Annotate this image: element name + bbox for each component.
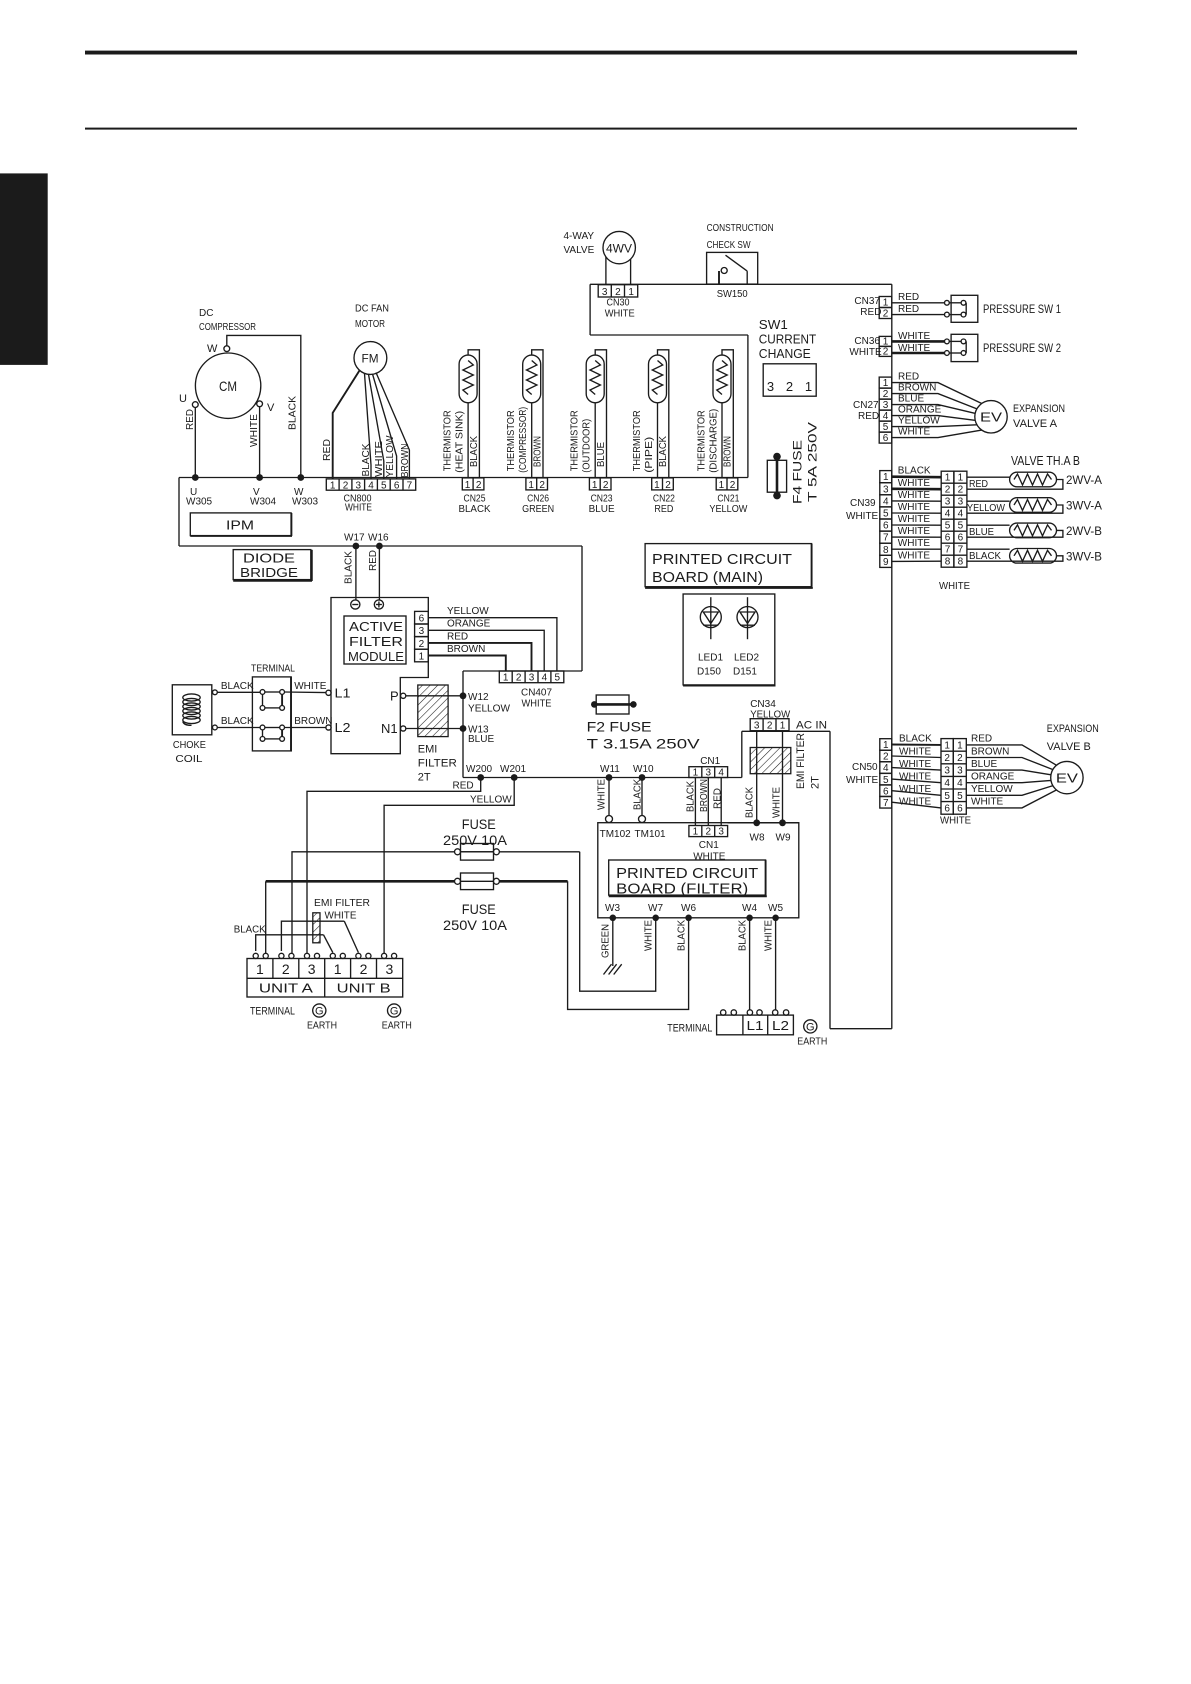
svg-text:WHITE: WHITE (898, 526, 931, 537)
svg-text:1: 1 (958, 473, 964, 484)
wire W17 black (355, 546, 357, 600)
svg-text:ORANGE: ORANGE (898, 404, 942, 415)
connector CN23 (589, 478, 611, 490)
svg-text:CN1: CN1 (699, 840, 719, 851)
compressor CM body (195, 353, 260, 418)
svg-text:YELLOW: YELLOW (447, 606, 489, 617)
junction W17 (353, 543, 360, 550)
svg-text:8: 8 (945, 557, 951, 568)
wire white to L1 (285, 691, 326, 694)
svg-text:6: 6 (883, 433, 889, 444)
svg-text:2: 2 (767, 721, 773, 732)
svg-text:MODULE: MODULE (348, 649, 404, 664)
svg-text:2: 2 (958, 485, 964, 496)
wire lower fuse left (266, 880, 455, 883)
wire white diagonal (344, 921, 358, 952)
ground (604, 964, 622, 974)
svg-text:FILTER: FILTER (349, 634, 403, 649)
wire W5 white (775, 918, 777, 1010)
choke coil box (172, 685, 212, 735)
terminal block (252, 677, 291, 751)
svg-text:W5: W5 (768, 903, 783, 914)
svg-text:1: 1 (256, 961, 264, 977)
svg-text:BLACK: BLACK (745, 787, 756, 818)
wire CN50 pin7 (892, 802, 941, 808)
svg-text:BLUE: BLUE (898, 393, 924, 404)
svg-text:W16: W16 (368, 533, 389, 544)
svg-text:1: 1 (883, 297, 889, 308)
terminal block UNIT A / UNIT B (247, 959, 403, 998)
svg-text:4: 4 (718, 768, 724, 779)
svg-text:WHITE: WHITE (940, 816, 971, 827)
printed circuit board filter box (598, 823, 799, 918)
svg-text:BROWN: BROWN (898, 382, 936, 393)
wire CN1 brown (707, 778, 709, 826)
svg-text:RED: RED (971, 734, 992, 745)
svg-text:BLUE: BLUE (969, 527, 994, 538)
junction W (297, 474, 304, 481)
wire N1 to W13 (406, 728, 463, 730)
svg-text:RED: RED (368, 550, 379, 571)
expansion valve B (1051, 761, 1083, 793)
wire EV-B ORANGE (966, 780, 1051, 782)
svg-text:THERMISTOR: THERMISTOR (443, 410, 454, 471)
svg-text:1: 1 (719, 480, 725, 491)
svg-text:W8: W8 (750, 833, 765, 844)
svg-text:BLACK: BLACK (658, 436, 669, 467)
svg-text:2: 2 (419, 639, 425, 650)
svg-text:PRINTED CIRCUIT: PRINTED CIRCUIT (616, 865, 758, 882)
svg-text:IPM: IPM (226, 518, 254, 533)
svg-text:U: U (179, 393, 187, 405)
svg-text:WHITE: WHITE (644, 920, 655, 951)
svg-text:LED1: LED1 (698, 653, 723, 664)
wire AC box top edge (742, 730, 830, 732)
wire CN50 pin4 (892, 768, 941, 771)
earth A (313, 1004, 326, 1017)
svg-text:BLACK: BLACK (344, 551, 355, 584)
EMI filter 2T hatched box (418, 685, 448, 737)
wire CN27 YELLOW (892, 425, 977, 427)
svg-text:WHITE: WHITE (374, 441, 385, 477)
svg-text:W7: W7 (648, 903, 663, 914)
svg-text:WHITE: WHITE (898, 426, 931, 437)
junction U (192, 474, 199, 481)
svg-text:4: 4 (957, 778, 963, 789)
svg-text:T 3.15A 250V: T 3.15A 250V (587, 736, 701, 752)
svg-text:3: 3 (386, 961, 394, 977)
wire CN39 pin1 (892, 475, 941, 478)
svg-text:CN27: CN27 (853, 400, 879, 411)
svg-text:W303: W303 (292, 497, 319, 508)
active filter module outline (331, 598, 428, 754)
svg-text:3: 3 (958, 497, 964, 508)
svg-text:2: 2 (883, 389, 889, 400)
wire top bus (590, 283, 892, 285)
svg-text:(COMPRESSOR): (COMPRESSOR) (518, 407, 529, 473)
switch SW1 box (763, 364, 816, 396)
svg-text:3: 3 (754, 721, 760, 732)
svg-text:250V 10A: 250V 10A (443, 917, 508, 933)
wire fan brown (376, 373, 409, 479)
junction W13 (460, 725, 467, 732)
wire CN27 BLUE (892, 405, 975, 414)
wire CN1 red (720, 778, 722, 826)
wire AFM red (428, 643, 531, 671)
svg-text:FUSE: FUSE (462, 901, 496, 917)
junction W16 (376, 543, 383, 550)
wire W10 black (641, 778, 643, 816)
thermistor T3 body (586, 355, 604, 403)
wire CN39 pin9 (892, 560, 941, 562)
wire from 3WV-B (967, 556, 1063, 561)
wire choke top (213, 690, 218, 695)
svg-text:BLACK: BLACK (361, 443, 372, 476)
wire T1 loop to pin2 (468, 350, 479, 478)
svg-text:RED: RED (713, 788, 724, 809)
svg-text:4: 4 (542, 673, 548, 684)
junction W8 (753, 819, 760, 826)
svg-text:THERMISTOR: THERMISTOR (697, 410, 708, 471)
svg-text:CN25: CN25 (464, 494, 486, 505)
wire T3 pin1 (594, 403, 596, 478)
wire main board bottom edge (463, 777, 742, 779)
fan motor FM (354, 342, 387, 375)
svg-text:6: 6 (958, 533, 964, 544)
svg-text:GREEN: GREEN (601, 924, 612, 958)
junction W10 (639, 774, 646, 781)
svg-text:7: 7 (958, 545, 964, 556)
svg-text:1: 1 (805, 379, 812, 394)
thermistor T3 element (590, 361, 600, 395)
thermistor T2 element (527, 361, 537, 395)
svg-text:2T: 2T (810, 776, 822, 789)
fuse 250V 10A lower (455, 878, 461, 884)
svg-text:T 5A 250V: T 5A 250V (806, 422, 820, 502)
terminal W (224, 346, 230, 352)
wire CN50 pin6 (892, 791, 941, 796)
wire CN34-3 black (756, 731, 758, 822)
terminal minus (351, 600, 360, 609)
wire to 2WV-B (967, 524, 1010, 526)
svg-text:YELLOW: YELLOW (468, 704, 511, 715)
connector CN22 (652, 478, 674, 490)
svg-text:3: 3 (883, 400, 889, 411)
wire PCB filter top right (728, 822, 799, 824)
wire right main bus (891, 284, 893, 1028)
svg-text:CHOKE: CHOKE (173, 740, 206, 751)
svg-text:3: 3 (356, 481, 362, 492)
connector CN407 (499, 671, 564, 683)
wire to 3WV-A (967, 500, 1010, 502)
header thin rule (85, 128, 1077, 130)
svg-text:CN50: CN50 (852, 762, 878, 773)
svg-text:BROWN: BROWN (723, 436, 734, 467)
svg-text:BLACK: BLACK (459, 504, 491, 515)
wire riser x747.9 (747, 335, 749, 478)
svg-text:CN22: CN22 (653, 494, 675, 505)
svg-text:2: 2 (615, 287, 621, 298)
svg-text:YELLOW: YELLOW (971, 784, 1013, 795)
svg-text:CN23: CN23 (591, 494, 613, 505)
svg-text:1: 1 (883, 740, 889, 751)
svg-text:5: 5 (555, 673, 561, 684)
fuse F2 (591, 701, 598, 708)
svg-text:1: 1 (334, 961, 342, 977)
svg-text:6: 6 (945, 533, 951, 544)
connector CN30 (598, 285, 638, 297)
svg-text:WHITE: WHITE (294, 681, 327, 692)
svg-text:P: P (390, 689, 399, 704)
wire W16 red (378, 546, 380, 600)
svg-text:TERMINAL: TERMINAL (251, 664, 295, 675)
svg-text:1: 1 (503, 673, 509, 684)
svg-text:V: V (267, 402, 275, 414)
svg-text:YELLOW: YELLOW (470, 795, 512, 806)
svg-text:7: 7 (945, 545, 951, 556)
wire CN27 BROWN (892, 394, 977, 409)
svg-text:BLACK: BLACK (898, 466, 931, 477)
svg-text:BLACK: BLACK (633, 779, 644, 810)
svg-text:YELLOW: YELLOW (385, 435, 396, 478)
connector CN1 bottom (689, 826, 728, 837)
svg-text:1: 1 (419, 651, 425, 662)
svg-text:RED: RED (898, 292, 919, 303)
svg-text:4: 4 (883, 411, 889, 422)
svg-text:EV: EV (980, 410, 1002, 425)
svg-text:4: 4 (368, 481, 374, 492)
wire T5 pin1 (721, 403, 723, 478)
svg-text:RED: RED (322, 439, 333, 461)
svg-text:WHITE: WHITE (597, 779, 608, 810)
wire W to bus (227, 335, 301, 477)
svg-text:WHITE: WHITE (898, 550, 931, 561)
svg-text:W305: W305 (186, 497, 213, 508)
svg-text:RED: RED (898, 304, 919, 315)
wire to 2WV-A (967, 476, 1010, 478)
thermistor T5 element (717, 361, 727, 395)
wire EV-B YELLOW (966, 786, 1053, 796)
svg-text:WHITE: WHITE (605, 309, 635, 320)
svg-text:W6: W6 (681, 903, 696, 914)
wire CN39 pin6 (892, 524, 941, 526)
svg-text:3: 3 (957, 766, 963, 777)
thermistor T2 body (523, 355, 541, 403)
terminal bridge lower (260, 725, 284, 741)
connector CN800 (326, 479, 415, 490)
svg-text:CM: CM (219, 378, 237, 394)
svg-text:3: 3 (944, 766, 950, 777)
svg-text:1: 1 (957, 740, 963, 751)
svg-text:RED: RED (969, 479, 988, 490)
svg-text:3: 3 (718, 827, 724, 838)
wire from 3WV-A (967, 505, 1063, 513)
svg-text:W201: W201 (500, 764, 527, 775)
wire fan white (369, 374, 384, 479)
svg-text:G: G (806, 1022, 815, 1034)
switch SW150 pole (718, 271, 720, 284)
svg-text:RED: RED (654, 504, 673, 515)
valve coil 2WV-A (1010, 472, 1057, 487)
valve coil 3WV-B (1010, 549, 1057, 564)
svg-text:DC FAN: DC FAN (355, 304, 389, 315)
svg-text:WHITE: WHITE (849, 347, 882, 358)
svg-text:WHITE: WHITE (846, 511, 879, 522)
svg-text:D150: D150 (697, 667, 721, 678)
svg-text:BROWN: BROWN (294, 716, 332, 727)
svg-text:BLACK: BLACK (969, 551, 1001, 562)
wire black diagonal (324, 935, 333, 953)
svg-text:THERMISTOR: THERMISTOR (632, 410, 643, 471)
svg-text:3WV-A: 3WV-A (1066, 499, 1102, 513)
svg-text:4: 4 (883, 496, 889, 507)
wire T1 pin1 (467, 403, 469, 478)
svg-text:G: G (390, 1006, 399, 1018)
wire CN50 pin2 (892, 756, 941, 758)
svg-text:EMI: EMI (418, 744, 438, 756)
svg-text:2: 2 (516, 673, 522, 684)
connector CN1 top (689, 767, 728, 778)
svg-text:YELLOW: YELLOW (967, 503, 1006, 514)
svg-text:W3: W3 (605, 903, 620, 914)
wire riser x590 (589, 284, 591, 335)
svg-text:VALVE B: VALVE B (1047, 741, 1091, 753)
active filter module label box (344, 616, 406, 664)
connector CN39 (880, 471, 892, 568)
connector CN37 (879, 297, 892, 319)
wire W11 white (608, 778, 610, 816)
diode bridge box (233, 550, 311, 580)
svg-text:3: 3 (602, 287, 608, 298)
wire fan red (333, 371, 360, 479)
svg-text:BLACK: BLACK (677, 920, 688, 951)
wire white through EMI (281, 921, 344, 951)
wire fan black (365, 374, 372, 479)
svg-text:2: 2 (883, 347, 889, 358)
svg-text:CN21: CN21 (717, 494, 739, 505)
svg-text:ORANGE: ORANGE (447, 619, 491, 630)
svg-text:PRESSURE SW 1: PRESSURE SW 1 (983, 302, 1061, 316)
wire AFM orange (428, 630, 544, 671)
wire bottom right segment (830, 1028, 892, 1030)
LED2 D151 (737, 597, 758, 639)
svg-text:TM101: TM101 (635, 829, 667, 840)
choke coil winding (183, 694, 200, 725)
IPM module (190, 513, 291, 536)
svg-text:CN30: CN30 (607, 298, 630, 309)
svg-text:2: 2 (945, 485, 951, 496)
EMI filter small hatched box (313, 913, 320, 943)
svg-text:5: 5 (883, 775, 889, 786)
svg-text:DIODE: DIODE (243, 551, 295, 566)
terminal plus (374, 600, 383, 609)
connector EV-B plug (941, 739, 966, 815)
wire T2 loop to pin2 (532, 350, 543, 478)
svg-text:3: 3 (945, 497, 951, 508)
wire V to bus (259, 407, 261, 478)
wire CN37-1 (892, 302, 945, 304)
svg-text:2: 2 (706, 827, 712, 838)
svg-text:EMI FILTER: EMI FILTER (314, 898, 370, 909)
svg-text:WHITE: WHITE (939, 581, 970, 592)
svg-text:(OUTDOOR): (OUTDOOR) (582, 419, 593, 473)
svg-text:BLACK: BLACK (221, 681, 254, 692)
svg-text:W17: W17 (344, 533, 365, 544)
terminal U (192, 402, 198, 408)
svg-text:2WV-B: 2WV-B (1066, 524, 1102, 538)
terminal bridge upper (260, 690, 284, 711)
wire left edge x179 (178, 478, 180, 547)
wire brown to L2 (285, 727, 326, 729)
wire CN39 pin7 (892, 536, 941, 538)
svg-text:1: 1 (883, 378, 889, 389)
junction V (256, 474, 263, 481)
svg-text:WHITE: WHITE (764, 920, 775, 951)
svg-text:2: 2 (476, 480, 482, 491)
switch SW150 right pole (746, 271, 748, 284)
svg-text:WHITE: WHITE (898, 478, 931, 489)
svg-text:THERMISTOR: THERMISTOR (506, 410, 517, 471)
junction W5 (772, 915, 779, 922)
earth right (804, 1020, 817, 1033)
svg-text:WHITE: WHITE (325, 911, 357, 922)
wire 4WV pin1 (630, 259, 632, 285)
svg-text:1: 1 (628, 287, 634, 298)
wire CN37-2 (892, 314, 945, 316)
terminal L1 (326, 690, 331, 695)
svg-text:4WV: 4WV (606, 242, 632, 256)
wire CN50 pin5 (892, 779, 941, 783)
wire power bus y477.5 (179, 477, 748, 479)
wire W201 yellow (384, 778, 514, 954)
svg-text:1: 1 (330, 481, 336, 492)
thermistor T5 body (713, 355, 731, 403)
svg-text:6: 6 (944, 803, 950, 814)
svg-text:THERMISTOR: THERMISTOR (570, 410, 581, 471)
svg-text:BROWN: BROWN (699, 779, 710, 812)
wire EV-B WHITE (966, 790, 1056, 808)
wire AC box left edge (741, 731, 743, 777)
connector CN50 (880, 739, 892, 808)
svg-text:WHITE: WHITE (249, 414, 260, 447)
connector CN21 (716, 478, 738, 490)
junction W6 (685, 915, 692, 922)
svg-text:4: 4 (944, 778, 950, 789)
wire U to bus (194, 408, 196, 478)
wire T4 loop to pin2 (658, 350, 669, 478)
svg-text:D151: D151 (733, 667, 757, 678)
header thick rule (85, 51, 1077, 55)
svg-text:COIL: COIL (175, 754, 203, 765)
wire W4 black (749, 918, 751, 1010)
svg-text:3: 3 (883, 484, 889, 495)
svg-text:BLACK: BLACK (234, 925, 266, 936)
thermistor T4 element (652, 361, 662, 395)
wire T4 pin1 (657, 403, 659, 478)
svg-text:W200: W200 (466, 764, 493, 775)
svg-text:COMPRESSOR: COMPRESSOR (199, 322, 256, 333)
svg-text:G: G (315, 1006, 324, 1018)
svg-text:YELLOW: YELLOW (709, 504, 748, 515)
wire CN27 WHITE (892, 430, 982, 438)
svg-text:3: 3 (308, 961, 316, 977)
svg-text:YELLOW: YELLOW (898, 415, 940, 426)
wire CN1 black (694, 778, 696, 826)
svg-text:5: 5 (944, 791, 950, 802)
wire EV-B RED (966, 745, 1056, 765)
svg-text:CN407: CN407 (521, 688, 552, 699)
junction W200 (477, 774, 484, 781)
